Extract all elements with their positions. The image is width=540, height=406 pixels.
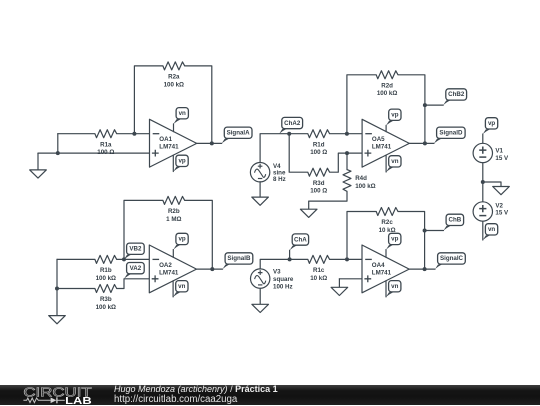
svg-text:100 kΩ: 100 kΩ xyxy=(355,183,375,190)
wire OA1 output xyxy=(197,142,222,144)
svg-text:ChB: ChB xyxy=(449,217,462,224)
voltage source V4 sine xyxy=(250,163,269,182)
junction R3b rail xyxy=(55,287,59,291)
wire V1 to V2 xyxy=(482,163,484,202)
svg-text:100 Ω: 100 Ω xyxy=(97,149,114,156)
logo resistor zigzag xyxy=(23,398,50,403)
flag vp (OA2 supply) xyxy=(173,243,187,250)
wire R1b to OA2 inverting input xyxy=(117,258,150,260)
wire R3b to OA2 non-inverting input xyxy=(117,279,150,289)
flag VA2 xyxy=(124,272,138,279)
resistor R1d xyxy=(308,130,330,138)
wire OA4 non-inverting input xyxy=(339,278,362,280)
svg-text:LM741: LM741 xyxy=(372,269,392,276)
junction ChA xyxy=(288,257,292,261)
flag SignalB xyxy=(223,262,237,269)
svg-text:R2a: R2a xyxy=(168,74,180,81)
resistor R4d xyxy=(343,170,351,192)
svg-text:vp: vp xyxy=(391,236,398,243)
pin OA4 V- supply xyxy=(385,281,387,297)
svg-text:15 V: 15 V xyxy=(495,155,509,162)
ground (OA1 input network) xyxy=(30,170,47,178)
svg-text:SignalC: SignalC xyxy=(440,255,464,262)
wire to ground (supply midpoint) xyxy=(483,182,501,187)
resistor R1c xyxy=(308,255,330,263)
svg-text:vp: vp xyxy=(178,158,185,165)
flag vn (OA4 supply) xyxy=(386,290,400,297)
svg-text:LAB: LAB xyxy=(65,395,92,405)
wire feedback right OA5 xyxy=(398,75,425,144)
svg-text:R2c: R2c xyxy=(381,219,393,226)
wire V3 to R1c xyxy=(260,259,308,269)
flag VB2 xyxy=(124,253,138,260)
node feedback tap OA5 xyxy=(345,132,349,136)
svg-text:vn: vn xyxy=(391,158,398,165)
wire OA1 inverting input left segment xyxy=(58,133,95,135)
op-amp OA4 xyxy=(362,245,409,293)
wire branch down to R3d xyxy=(289,134,308,173)
svg-text:vp: vp xyxy=(391,112,398,119)
pin OA5 V- supply xyxy=(385,155,387,172)
wire OA5 output xyxy=(409,142,434,144)
svg-text:R1d: R1d xyxy=(313,141,325,148)
svg-text:SignalB: SignalB xyxy=(227,255,251,262)
flag vp (OA5 supply) xyxy=(386,119,400,126)
wire ChB stub xyxy=(425,230,444,232)
junction at input rail xyxy=(56,151,60,155)
junction OA4 output xyxy=(423,267,427,271)
wire OA1 non-inverting input xyxy=(38,152,150,154)
junction OA5 output xyxy=(423,141,427,145)
pin OA5 V+ supply xyxy=(385,125,387,131)
svg-text:100 kΩ: 100 kΩ xyxy=(377,90,397,97)
flag ChA xyxy=(290,243,304,250)
flag vp (supply rail) xyxy=(483,127,497,134)
wire feedback left OA5 xyxy=(347,75,376,134)
resistor R2d xyxy=(376,71,398,79)
CircuitLab logo xyxy=(0,385,110,406)
flag vn (OA2 supply) xyxy=(173,290,187,297)
svg-text:V2: V2 xyxy=(495,202,503,209)
svg-text:SignalA: SignalA xyxy=(227,130,251,137)
junction R4d top xyxy=(345,151,349,155)
logo diode xyxy=(51,397,57,403)
svg-text:square: square xyxy=(273,276,294,283)
wire OA4 output xyxy=(409,268,435,270)
pin OA1 V+ supply xyxy=(173,124,175,132)
svg-text:vp: vp xyxy=(488,120,495,127)
svg-text:R3b: R3b xyxy=(100,296,112,303)
wire to ground (OA4 input) xyxy=(338,279,340,288)
wire V4 to ground xyxy=(259,182,261,197)
resistor R1b xyxy=(95,255,117,263)
wire V2 to vn xyxy=(482,221,484,240)
resistor R2c xyxy=(376,208,398,216)
flag ChA2 xyxy=(279,127,293,134)
svg-text:100 kΩ: 100 kΩ xyxy=(164,81,184,88)
svg-text:100 kΩ: 100 kΩ xyxy=(96,275,116,282)
node feedback tap OA1 xyxy=(132,132,136,136)
resistor R3d xyxy=(308,168,330,176)
junction ChB2 tap xyxy=(423,103,427,107)
flag vn (OA1 supply) xyxy=(174,117,188,124)
svg-text:ChA2: ChA2 xyxy=(284,120,301,127)
junction ChB tap xyxy=(423,229,427,233)
pin OA1 V- supply xyxy=(172,155,174,171)
svg-text:R2d: R2d xyxy=(381,83,393,90)
voltage source V1 xyxy=(473,143,492,162)
wire to ground (OA1 input network) xyxy=(37,153,39,170)
junction R3d branch xyxy=(287,132,291,136)
node feedback tap OA2 xyxy=(122,257,126,261)
svg-text:OA1: OA1 xyxy=(159,136,172,143)
wire vp to V1 xyxy=(482,134,484,143)
wire V3 to ground xyxy=(259,288,261,304)
wire feedback left OA1 xyxy=(134,66,163,134)
svg-text:R1a: R1a xyxy=(100,141,112,148)
svg-text:1 MΩ: 1 MΩ xyxy=(166,216,181,223)
svg-text:vp: vp xyxy=(178,236,185,243)
wire ChA stub xyxy=(289,250,291,259)
wire R4d to ground xyxy=(309,191,347,209)
wire left rail down to ground xyxy=(56,259,58,315)
resistor R2a xyxy=(163,62,185,70)
resistor R2b xyxy=(163,196,185,204)
ground (V3) xyxy=(252,304,269,312)
wire OA2 inverting input left segment xyxy=(57,258,95,260)
svg-text:OA2: OA2 xyxy=(159,262,172,269)
flag ChB xyxy=(444,224,458,231)
flag SignalD xyxy=(434,137,448,144)
wire ChB2 stub xyxy=(425,104,443,106)
svg-text:LM741: LM741 xyxy=(372,144,392,151)
flag ChB2 xyxy=(443,98,457,105)
wire feedback right OA1 xyxy=(185,66,212,143)
ground (R4d) xyxy=(300,209,317,217)
op-amp OA1 xyxy=(150,119,197,167)
wire feedback left OA2 xyxy=(124,200,163,259)
resistor R1a xyxy=(95,130,117,138)
junction OA1 output xyxy=(210,141,214,145)
svg-text:ChA: ChA xyxy=(294,236,307,243)
wire V4 to R1d xyxy=(260,134,308,163)
wire R1c to OA4 inverting input xyxy=(330,258,362,260)
svg-text:OA5: OA5 xyxy=(372,136,385,143)
svg-text:10 kΩ: 10 kΩ xyxy=(310,275,327,282)
resistor R3b xyxy=(95,285,117,293)
svg-text:R1c: R1c xyxy=(313,267,325,274)
wire feedback left OA4 xyxy=(347,212,376,260)
pin OA2 V+ supply xyxy=(172,250,174,258)
svg-text:LM741: LM741 xyxy=(159,144,179,151)
svg-text:LM741: LM741 xyxy=(159,269,179,276)
ground (OA2 input network) xyxy=(49,316,66,324)
svg-text:SignalD: SignalD xyxy=(439,130,463,137)
wire R4d top lead xyxy=(346,153,348,170)
wire joining input rails xyxy=(57,134,59,153)
flag SignalC xyxy=(435,262,449,269)
svg-text:8 Hz: 8 Hz xyxy=(273,176,286,183)
pin OA4 V+ supply xyxy=(385,250,387,258)
op-amp OA5 xyxy=(362,119,409,167)
svg-text:ChB2: ChB2 xyxy=(448,91,465,98)
svg-text:VA2: VA2 xyxy=(130,265,142,272)
svg-text:vn: vn xyxy=(179,110,186,117)
svg-text:vn: vn xyxy=(488,226,495,233)
svg-text:100 Hz: 100 Hz xyxy=(273,283,293,290)
flag vp (OA1 supply) xyxy=(173,165,187,172)
svg-text:R2b: R2b xyxy=(168,208,180,215)
ground (OA4 input) xyxy=(331,287,348,295)
svg-text:OA4: OA4 xyxy=(372,262,385,269)
svg-text:100 kΩ: 100 kΩ xyxy=(96,304,116,311)
svg-text:V3: V3 xyxy=(273,269,281,276)
wire OA2 output xyxy=(197,268,223,270)
op-amp OA2 xyxy=(149,245,196,293)
wire feedback right OA2 xyxy=(185,200,213,269)
wire R1d to OA5 inverting input xyxy=(330,133,363,135)
ground (V4) xyxy=(252,197,269,205)
svg-text:vn: vn xyxy=(391,283,398,290)
voltage source V3 square xyxy=(251,269,270,288)
junction OA2 output xyxy=(210,267,214,271)
svg-text:R4d: R4d xyxy=(355,175,367,182)
junction supply midpoint xyxy=(481,180,485,184)
ground (supply midpoint) xyxy=(493,187,510,195)
svg-text:15 V: 15 V xyxy=(495,210,509,217)
svg-text:V1: V1 xyxy=(495,148,503,155)
flag vn (OA5 supply) xyxy=(386,165,400,172)
node feedback tap OA4 xyxy=(345,257,349,261)
wire R3b left segment xyxy=(57,288,95,290)
svg-text:vn: vn xyxy=(178,283,185,290)
svg-text:100 Ω: 100 Ω xyxy=(310,188,327,195)
svg-text:VB2: VB2 xyxy=(129,246,142,253)
wire feedback right OA4 xyxy=(398,212,425,270)
wire R3d to OA5 non-inverting input xyxy=(330,153,363,172)
svg-text:100 Ω: 100 Ω xyxy=(310,149,327,156)
flag SignalA xyxy=(222,137,236,144)
pin OA2 V- supply xyxy=(172,281,174,297)
wire R1a to OA1 inverting input xyxy=(117,133,150,135)
flag vn (supply rail) xyxy=(483,233,497,240)
voltage source V2 xyxy=(473,202,492,221)
svg-text:R3d: R3d xyxy=(313,180,325,187)
svg-text:R1b: R1b xyxy=(100,267,112,274)
flag vp (OA4 supply) xyxy=(386,243,400,250)
